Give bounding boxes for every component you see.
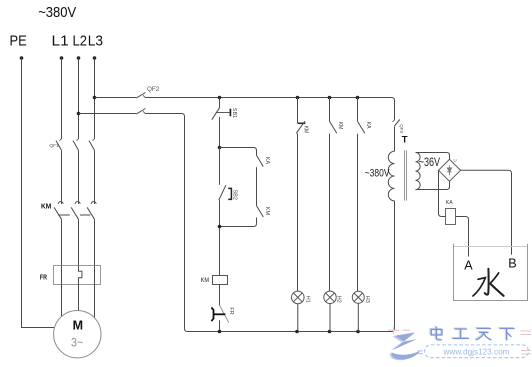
pushbutton SB1 upper wire bbox=[219, 98, 221, 108]
wire QF3 to transformer primary bbox=[394, 126, 396, 151]
wire lamp H3 to bottom rail bbox=[357, 303, 359, 331]
pushbutton SB2 cap bbox=[228, 188, 231, 199]
water character 水 bbox=[473, 269, 504, 296]
contact KA NO blade bbox=[358, 121, 365, 133]
breaker QF2 pole 1 blade bbox=[136, 93, 145, 99]
node top rail H2 junction bbox=[328, 96, 332, 100]
node bottom rail H1 junction bbox=[295, 330, 299, 334]
breaker QF1 pole 1 bbox=[56, 141, 62, 151]
svg-text:FR: FR bbox=[228, 307, 234, 314]
svg-text:T: T bbox=[402, 135, 408, 146]
wire L2 FR to motor bbox=[78, 285, 80, 311]
svg-text:M: M bbox=[73, 319, 83, 333]
svg-text:L2: L2 bbox=[73, 33, 88, 50]
svg-text:~36V: ~36V bbox=[419, 155, 440, 169]
wire L1 down bbox=[61, 58, 63, 139]
wire L2 down bbox=[78, 58, 80, 139]
svg-text:KM: KM bbox=[41, 204, 51, 211]
wire secondary bottom to rectifier bbox=[416, 181, 450, 189]
wire control left rail to bottom rail bbox=[145, 114, 187, 332]
node L3 terminal bbox=[93, 56, 97, 60]
svg-text:H1: H1 bbox=[304, 296, 310, 303]
node B junction bbox=[218, 225, 222, 229]
svg-text:~380V: ~380V bbox=[365, 168, 390, 180]
svg-text:PE: PE bbox=[10, 33, 27, 50]
rectifier diode symbol bbox=[449, 165, 451, 175]
coil KM box bbox=[213, 276, 228, 285]
transformer core bbox=[405, 150, 407, 200]
svg-text:A: A bbox=[464, 259, 473, 273]
breaker QF3 tick bbox=[393, 120, 395, 122]
node L2 branch junction bbox=[77, 112, 81, 116]
pushbutton SB1 blade bbox=[212, 107, 220, 120]
pushbutton SB2 blade bbox=[219, 185, 226, 200]
svg-text:QF2: QF2 bbox=[147, 86, 160, 93]
contact KM NO for H2 upper wire bbox=[329, 98, 331, 122]
svg-text:FR: FR bbox=[40, 274, 47, 281]
svg-text:www.dgjs123.com: www.dgjs123.com bbox=[443, 348, 510, 357]
contact KM NC seat bar bbox=[298, 122, 306, 124]
wire L1 QF1 to KM bbox=[61, 150, 63, 204]
motor M circle bbox=[54, 311, 101, 358]
pushbutton SB1 lower wire bbox=[219, 117, 221, 148]
node bottom rail H3 junction bbox=[356, 330, 360, 334]
wire L1 FR to motor bbox=[61, 285, 63, 317]
svg-text:L3: L3 bbox=[88, 33, 103, 50]
breaker QF2 pole 2 tick bbox=[143, 111, 145, 113]
pushbutton SB1 cap bbox=[229, 109, 231, 117]
breaker QF2 pole 1 tick bbox=[143, 95, 145, 97]
pushbutton SB2 lower wire bbox=[219, 200, 221, 275]
breaker QF1 pole 3 bbox=[89, 141, 95, 151]
svg-text:SB2: SB2 bbox=[231, 190, 237, 200]
node top rail H1 junction bbox=[296, 96, 300, 100]
wire between holding contacts bbox=[256, 167, 258, 206]
breaker QF3 blade bbox=[394, 120, 399, 127]
wire L1 KM to FR box bbox=[61, 219, 63, 265]
wire to lamp H2 bbox=[329, 134, 331, 291]
node PE terminal bbox=[20, 56, 24, 60]
wire L2 branch to QF2 pole 2 bbox=[79, 113, 137, 115]
svg-text:KM: KM bbox=[303, 126, 309, 134]
wire L3 through FR box bbox=[94, 266, 96, 285]
wire holding branch bottom bbox=[220, 218, 257, 227]
wire L2 KM to FR box bbox=[78, 219, 80, 265]
contactor KM linkage bar 2 bbox=[80, 214, 90, 216]
svg-text:KA: KA bbox=[264, 157, 270, 165]
watermark red accent dashes bbox=[388, 327, 531, 355]
wire rectifier to electrode B bbox=[461, 170, 512, 254]
wire secondary top to rectifier bbox=[416, 153, 450, 160]
node A junction bbox=[218, 146, 222, 150]
svg-text:KM: KM bbox=[201, 277, 209, 284]
contact KA holding blade bbox=[257, 155, 264, 166]
node bottom rail KM junction bbox=[218, 330, 222, 334]
wire L3 down bbox=[94, 58, 96, 139]
wire L3 QF1 to KM bbox=[94, 150, 96, 204]
wire top rail bbox=[145, 98, 394, 120]
wire L2 QF1 to KM bbox=[78, 150, 80, 204]
wire lamp H1 to bottom rail bbox=[297, 304, 299, 332]
svg-text:KA: KA bbox=[446, 200, 453, 206]
node L3 branch junction bbox=[93, 96, 97, 100]
wire L1 through FR box bbox=[61, 266, 63, 285]
wire lamp H2 to bottom rail bbox=[329, 304, 331, 332]
wire to lamp H1 bbox=[297, 133, 299, 291]
pushbutton SB2 upper wire bbox=[219, 148, 221, 185]
contact KM NO blade bbox=[330, 121, 337, 133]
contactor KM linkage bar 1 bbox=[58, 214, 69, 216]
contact KM NC blade bbox=[296, 121, 305, 133]
wire bottom rail bbox=[188, 201, 395, 332]
thermal element FR on L2 bbox=[79, 266, 82, 285]
breaker QF2 pole 2 blade bbox=[136, 109, 145, 115]
wire L3 KM to FR box bbox=[94, 219, 96, 265]
water level line bbox=[454, 246, 527, 248]
node top rail H3 junction bbox=[356, 96, 360, 100]
svg-text:B: B bbox=[508, 257, 516, 271]
node bottom rail H2 junction bbox=[328, 330, 332, 334]
wire KM coil to FR contact bbox=[219, 285, 221, 306]
watermark url pill bbox=[418, 345, 529, 358]
contact KA NO for H3 upper wire bbox=[357, 98, 359, 122]
contact KM holding blade bbox=[257, 206, 264, 217]
watermark logo swoosh bbox=[390, 332, 421, 360]
wire KA coil to electrode A bbox=[456, 217, 469, 257]
svg-text:SB1: SB1 bbox=[231, 108, 237, 118]
watermark text 电工天下 bbox=[430, 326, 513, 340]
svg-text:L1: L1 bbox=[52, 33, 69, 50]
node L2 terminal bbox=[77, 56, 81, 60]
rectifier U diamond bbox=[439, 159, 461, 181]
svg-text:H3: H3 bbox=[364, 296, 370, 303]
wire to lamp H3 bbox=[357, 134, 359, 292]
wire FR contact to bottom rail bbox=[219, 320, 221, 331]
water tank bbox=[454, 244, 528, 301]
wire PE down to motor frame bbox=[22, 58, 55, 328]
thermal contact FR blade bbox=[220, 306, 229, 323]
wire L3 branch to QF2 pole 1 bbox=[95, 97, 137, 99]
svg-text:~380V: ~380V bbox=[38, 4, 76, 21]
wire rectifier to KA coil bbox=[439, 170, 446, 216]
svg-text:U: U bbox=[453, 158, 456, 163]
contactor KM main contact 3 bbox=[91, 201, 96, 203]
lamp H2 bbox=[324, 291, 336, 303]
svg-text:KM: KM bbox=[264, 207, 270, 216]
transformer T secondary winding bbox=[416, 153, 421, 190]
wire holding branch top bbox=[220, 148, 257, 156]
node top rail SB1 junction bbox=[218, 96, 222, 100]
transformer T primary winding bbox=[388, 151, 394, 201]
svg-text:3~: 3~ bbox=[71, 337, 83, 349]
thermal relay FR box bbox=[54, 266, 101, 285]
contact KM NC for H1 upper wire bbox=[297, 98, 299, 124]
node L1 terminal bbox=[60, 56, 64, 60]
wire L3 FR to motor bbox=[94, 285, 96, 319]
svg-text:KM: KM bbox=[337, 122, 343, 130]
thermal contact FR trip element bbox=[211, 307, 213, 321]
svg-text:QF3: QF3 bbox=[399, 124, 404, 133]
relay coil KA box bbox=[446, 209, 456, 225]
svg-text:KA: KA bbox=[365, 122, 371, 129]
pushbutton SB1 actuator bbox=[216, 112, 230, 114]
contactor KM main contact 2 bbox=[75, 201, 80, 203]
lamp H3 bbox=[352, 291, 364, 303]
svg-text:H2: H2 bbox=[336, 296, 342, 303]
contactor KM main contact 1 bbox=[58, 202, 63, 204]
lamp H1 bbox=[292, 291, 305, 304]
breaker QF1 pole 2 bbox=[73, 141, 79, 151]
